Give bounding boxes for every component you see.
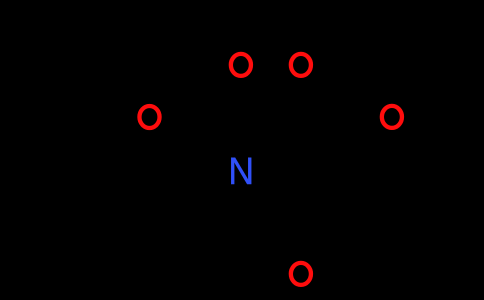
wire: bond C2-O4: [346, 91, 376, 107]
atom O1 (carbonyl oxygen, top left of pair): [231, 54, 251, 76]
wire: double bond C3=O5: [297, 218, 305, 256]
wire: bond N-C3: [252, 182, 294, 212]
atom O3 (ester oxygen, left): [139, 106, 159, 128]
wire: bond N-C1: [239, 131, 243, 156]
atom O2 (carbonyl oxygen, top right of pair): [291, 54, 311, 76]
atom O5 (carbonyl oxygen, bottom): [291, 263, 311, 285]
svg-text:N: N: [228, 150, 254, 192]
wire: bond O3-CH3 left: [96, 124, 135, 146]
wire: bond O4-CH3 right: [404, 124, 444, 143]
atom N (central nitrogen): [228, 150, 254, 192]
wire: bond C1-O3: [168, 118, 228, 122]
wire: double bond C2=O2: [308, 77, 340, 96]
wire: double bond C1=O1: [237, 84, 245, 128]
atom O4 (ester oxygen, right): [382, 106, 402, 128]
